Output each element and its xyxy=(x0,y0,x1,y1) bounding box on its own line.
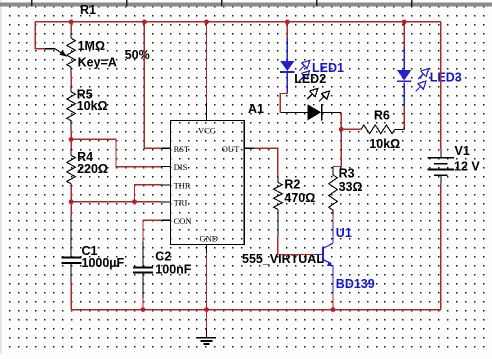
wire LED1 to LED2 xyxy=(280,92,287,113)
svg-text:RST: RST xyxy=(174,144,190,154)
svg-text:R3: R3 xyxy=(339,167,355,181)
capacitor C1 xyxy=(70,216,72,257)
wire emitter to bottom rail xyxy=(332,293,334,310)
wire LED3 to top rail xyxy=(403,22,405,48)
node LED1 branch top rail xyxy=(285,20,290,25)
svg-text:10kΩ: 10kΩ xyxy=(77,99,108,113)
svg-text:R6: R6 xyxy=(374,108,390,122)
resistor R4 xyxy=(70,149,72,155)
node RST branch on top rail xyxy=(142,20,147,25)
wire node to C1 xyxy=(70,202,72,216)
svg-text:LED2: LED2 xyxy=(294,72,326,86)
svg-text:VCC: VCC xyxy=(198,125,216,135)
window left edge xyxy=(0,0,2,354)
capacitor C2 xyxy=(142,242,144,268)
svg-text:U1: U1 xyxy=(336,226,352,240)
wire C1 to bottom rail xyxy=(70,283,72,309)
wire node to DIS pin xyxy=(71,139,161,166)
svg-text:THR: THR xyxy=(174,180,191,190)
svg-text:1MΩ: 1MΩ xyxy=(78,39,105,53)
svg-text:220Ω: 220Ω xyxy=(77,162,108,176)
svg-text:TRI: TRI xyxy=(174,197,188,207)
pin stub left xyxy=(162,166,171,168)
wire GND pin to ground xyxy=(206,253,208,328)
wire top rail to LED1 xyxy=(286,22,288,38)
wire OUT to R2 xyxy=(254,148,278,175)
svg-text:DIS: DIS xyxy=(174,162,188,172)
LED D3 (LED3) xyxy=(403,82,405,106)
svg-text:10kΩ: 10kΩ xyxy=(369,137,400,151)
svg-text:CON: CON xyxy=(174,216,192,226)
svg-text:33Ω: 33Ω xyxy=(339,180,363,194)
svg-text:1000µF: 1000µF xyxy=(82,256,125,270)
pin stub OUT xyxy=(244,147,253,149)
ruler tick xyxy=(221,0,223,6)
wire R3 to collector xyxy=(332,215,334,222)
ruler tick xyxy=(126,0,128,6)
pin GND stub xyxy=(206,245,208,253)
svg-text:C2: C2 xyxy=(155,249,171,263)
wire THR branch to THR pin xyxy=(135,185,162,202)
battery V1 xyxy=(440,149,442,157)
wire R5 to node xyxy=(70,131,72,139)
svg-text:R1: R1 xyxy=(80,3,96,17)
wire TRI node to TRI pin xyxy=(71,201,161,203)
wire CON pin to C2 xyxy=(143,220,162,241)
resistor R6 xyxy=(361,125,395,134)
wire R2 to base xyxy=(278,237,315,255)
wire R4 to TRI node xyxy=(70,186,72,202)
ruler tick xyxy=(316,0,318,6)
wire node to R3 xyxy=(333,129,341,166)
node LED2/R6/R3 xyxy=(339,127,344,132)
pin stub left xyxy=(162,147,171,149)
svg-text:GND: GND xyxy=(200,234,218,244)
transistor U1 BD139 xyxy=(332,222,334,243)
svg-text:LED3: LED3 xyxy=(430,71,462,85)
ruler tick xyxy=(411,0,413,6)
resistor R3 xyxy=(332,167,334,175)
wire battery to bottom rail xyxy=(440,184,442,310)
svg-text:BD139: BD139 xyxy=(336,277,375,291)
wire top rail xyxy=(35,21,441,23)
potentiometer R1 xyxy=(70,31,72,38)
wire node to R4 xyxy=(70,139,72,149)
wire pot top xyxy=(70,22,72,31)
pin VCC stub xyxy=(206,103,208,121)
svg-text:12 V: 12 V xyxy=(454,159,480,173)
node emitter bottom rail xyxy=(331,307,336,312)
svg-text:50%: 50% xyxy=(125,48,150,62)
ruler tick xyxy=(31,0,33,6)
pin stub left xyxy=(162,219,171,221)
svg-text:Key=A: Key=A xyxy=(78,56,117,70)
wire node to R6 xyxy=(341,128,361,130)
node C2 bottom rail xyxy=(141,307,146,312)
wire pot to R5 xyxy=(70,74,72,85)
svg-text:V1: V1 xyxy=(455,144,470,158)
svg-text:100nF: 100nF xyxy=(155,262,191,276)
wire top rail to battery xyxy=(440,22,442,149)
node pot top rail xyxy=(69,20,74,25)
node VCC branch top rail xyxy=(204,20,209,25)
resistor R5 xyxy=(70,85,72,92)
wire R6 to LED3 xyxy=(403,106,405,127)
svg-text:OUT: OUT xyxy=(222,144,240,154)
node LED3 top rail xyxy=(402,20,407,25)
LED D2 (LED2) xyxy=(280,111,307,113)
pin stub left xyxy=(162,184,171,186)
node GND bottom rail xyxy=(204,307,209,312)
node TRI junction left xyxy=(69,199,74,204)
pin stub left xyxy=(162,201,171,203)
wire pot wiper loop xyxy=(35,22,44,49)
svg-text:470Ω: 470Ω xyxy=(284,191,315,205)
resistor R2 xyxy=(277,175,279,182)
wire C2 to bottom rail xyxy=(142,298,144,310)
wire top rail to VCC pin xyxy=(206,22,208,103)
svg-text:A1: A1 xyxy=(248,102,264,116)
node R5/R4/DIS junction xyxy=(69,137,74,142)
wire top rail to RST pin xyxy=(144,22,161,148)
top ruler bar xyxy=(0,3,492,7)
node THR branch xyxy=(132,199,137,204)
svg-text:R2: R2 xyxy=(284,178,300,192)
wire bottom rail xyxy=(71,309,441,311)
wire LED2 to R6/R3 node xyxy=(340,112,342,129)
op-amp/IC A1 555 box xyxy=(171,121,245,245)
ground symbol xyxy=(206,328,208,337)
LED D1 (LED1) xyxy=(286,38,288,61)
